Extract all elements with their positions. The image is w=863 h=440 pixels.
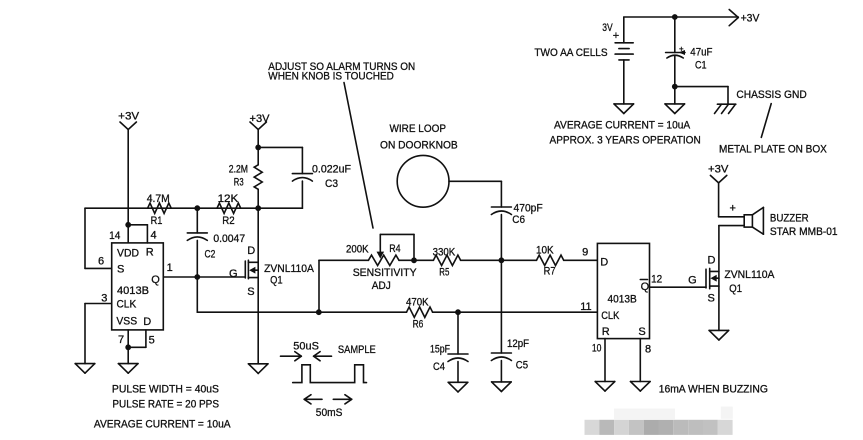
svg-text:200K: 200K bbox=[346, 244, 369, 256]
svg-text:AVERAGE CURRENT = 10uA: AVERAGE CURRENT = 10uA bbox=[554, 120, 691, 132]
wire U2 pin 10 R to ground bbox=[604, 339, 606, 382]
ground below Q2 source bbox=[709, 330, 729, 340]
annotation sample waveform 50uS bbox=[281, 340, 376, 360]
svg-text:WIRE LOOP: WIRE LOOP bbox=[390, 123, 447, 135]
annotation buzzing current text bbox=[659, 383, 768, 395]
wire sense line y=260 (pot to U2 pin 9) bbox=[319, 259, 597, 261]
wire battery top bus to +3V arrow bbox=[624, 16, 739, 18]
annotation battery current text bbox=[550, 120, 701, 147]
power +3V buzzer supply arrow bbox=[708, 164, 729, 183]
pin 12 label bbox=[651, 274, 662, 286]
node C2 bottom on gate wire dot bbox=[195, 275, 199, 279]
svg-text:7: 7 bbox=[118, 334, 124, 346]
svg-text:D: D bbox=[600, 257, 608, 269]
pin 8 label bbox=[645, 344, 651, 356]
svg-text:SAMPLE: SAMPLE bbox=[338, 344, 376, 356]
wire bus left end down to U1 pin 6 S bbox=[85, 208, 112, 268]
resistor R7 10K bbox=[536, 244, 564, 277]
pin 3 label bbox=[101, 293, 107, 305]
svg-text:AVERAGE CURRENT = 10uA: AVERAGE CURRENT = 10uA bbox=[94, 419, 231, 431]
node bus/R3/Q1-drain junction dot bbox=[256, 206, 260, 210]
svg-text:G: G bbox=[688, 275, 697, 287]
svg-text:ZVNL110A: ZVNL110A bbox=[724, 269, 775, 281]
svg-text:APPROX. 3 YEARS OPERATION: APPROX. 3 YEARS OPERATION bbox=[550, 135, 701, 147]
svg-text:4: 4 bbox=[151, 230, 157, 242]
svg-text:S: S bbox=[117, 264, 124, 276]
node battery bus / C1 dot bbox=[673, 15, 677, 19]
capacitor C3 0.022uF bbox=[258, 147, 351, 208]
svg-text:STAR MMB-01: STAR MMB-01 bbox=[770, 226, 838, 238]
svg-text:Q1: Q1 bbox=[729, 283, 742, 295]
svg-text:R6: R6 bbox=[413, 318, 424, 330]
wire R6/CLK line y=312 bbox=[197, 311, 597, 313]
resistor R5 330K bbox=[433, 246, 461, 278]
svg-text:R: R bbox=[602, 326, 610, 338]
svg-text:R2: R2 bbox=[222, 215, 234, 227]
wire U2 pin 12 Qbar to Q2 gate bbox=[650, 286, 707, 288]
svg-text:Q: Q bbox=[151, 274, 160, 286]
svg-text:4013B: 4013B bbox=[117, 285, 149, 297]
power +3V left supply arrow bbox=[118, 111, 140, 130]
wire C1 bottom to chassis ground bbox=[675, 87, 728, 105]
capacitor C2 0.0047 bbox=[187, 208, 245, 277]
IC U2 4013B body bbox=[597, 243, 649, 338]
svg-text:C6: C6 bbox=[512, 214, 525, 226]
resistor R1 4.7M bbox=[147, 193, 172, 227]
svg-text:PULSE RATE = 20 PPS: PULSE RATE = 20 PPS bbox=[112, 398, 219, 410]
svg-text:D: D bbox=[247, 245, 255, 257]
power +3V second supply arrow (R3 top) bbox=[250, 113, 271, 130]
ground below CLK bbox=[75, 364, 95, 374]
pointer line chassis gnd to metal plate text bbox=[761, 104, 771, 138]
ground below C5 bbox=[492, 382, 512, 392]
wire Q2 drain vertical from buzzer to ground bbox=[718, 226, 720, 331]
wire pin14/pin4 bracket bbox=[128, 225, 147, 243]
capacitor C4 15pF bbox=[430, 312, 468, 382]
svg-text:ADJ: ADJ bbox=[372, 280, 391, 292]
ground below pin 8 bbox=[631, 382, 651, 392]
svg-text:16mA WHEN BUZZING: 16mA WHEN BUZZING bbox=[659, 383, 768, 395]
wire C6 bottom down to C5 bbox=[500, 215, 502, 354]
annotation pulse stats text bbox=[94, 383, 231, 430]
wire +3V left stem down to U1 VDD pin 14 bbox=[127, 130, 129, 243]
ground below C1 bbox=[665, 104, 685, 114]
wire Q1 drain-source vertical to ground bbox=[257, 208, 259, 364]
svg-text:VDD: VDD bbox=[117, 248, 139, 260]
svg-text:R3: R3 bbox=[234, 177, 244, 189]
svg-text:6: 6 bbox=[98, 256, 104, 268]
svg-text:D: D bbox=[143, 316, 151, 328]
power +3V right arrow (battery output) bbox=[729, 10, 760, 26]
resistor R6 470K bbox=[406, 296, 433, 330]
svg-text:Q1: Q1 bbox=[270, 275, 283, 287]
svg-text:PULSE WIDTH = 40uS: PULSE WIDTH = 40uS bbox=[112, 383, 219, 395]
node pot wiper leg on sense line dot bbox=[412, 258, 416, 262]
svg-text:15pF: 15pF bbox=[430, 344, 450, 356]
svg-text:ZVNL110A: ZVNL110A bbox=[264, 263, 314, 275]
svg-text:S: S bbox=[247, 286, 254, 298]
svg-text:50uS: 50uS bbox=[293, 340, 319, 352]
svg-text:C1: C1 bbox=[695, 60, 707, 72]
svg-text:0.0047: 0.0047 bbox=[213, 233, 245, 245]
svg-text:BUZZER: BUZZER bbox=[770, 213, 809, 225]
wire top bus y=208 from S-pin corner to C3 bottom bbox=[85, 207, 302, 209]
resistor R3 2.2M bbox=[229, 147, 262, 208]
svg-text:C2: C2 bbox=[205, 249, 216, 261]
chassis ground symbol bbox=[715, 89, 807, 114]
svg-text:+: + bbox=[679, 45, 684, 54]
wire U2 pin 8 S to ground bbox=[639, 339, 641, 382]
pointer line from adjust text to pot bbox=[344, 83, 373, 229]
svg-text:12pF: 12pF bbox=[507, 338, 529, 350]
annotation adjust-so-alarm text bbox=[268, 61, 415, 83]
svg-text:VSS: VSS bbox=[116, 315, 137, 327]
wire +3V to R3 top node bbox=[257, 130, 259, 148]
svg-text:ON DOORKNOB: ON DOORKNOB bbox=[380, 139, 458, 151]
node R3 top / C3 junction dot bbox=[256, 145, 260, 149]
potentiometer R4 200K sensitivity adj bbox=[346, 234, 417, 292]
svg-text:+3V: +3V bbox=[250, 113, 271, 125]
svg-text:3V: 3V bbox=[602, 22, 613, 34]
svg-text:METAL PLATE ON BOX: METAL PLATE ON BOX bbox=[719, 144, 827, 156]
pin 9 label bbox=[582, 247, 588, 259]
node pin14 branch dot bbox=[126, 223, 130, 227]
wire pot left elbow down to R6 line bbox=[318, 260, 320, 312]
svg-text:+: + bbox=[730, 203, 736, 215]
ground below Q1 source bbox=[248, 364, 268, 374]
pin 4 label bbox=[151, 230, 157, 242]
svg-text:1: 1 bbox=[167, 262, 173, 274]
svg-text:C3: C3 bbox=[325, 178, 338, 190]
svg-text:Q: Q bbox=[641, 281, 650, 293]
svg-text:14: 14 bbox=[109, 230, 120, 242]
svg-text:G: G bbox=[229, 268, 238, 280]
svg-text:11: 11 bbox=[580, 301, 591, 313]
svg-text:TWO AA CELLS: TWO AA CELLS bbox=[534, 47, 607, 59]
svg-text:C5: C5 bbox=[516, 360, 528, 372]
pin 14 label bbox=[109, 230, 120, 242]
node pot left leg on R6 line dot bbox=[317, 310, 321, 314]
svg-text:9: 9 bbox=[582, 247, 588, 259]
watermark pixelated block bbox=[585, 407, 733, 435]
ground below battery bbox=[614, 104, 634, 114]
annotation metal plate text bbox=[719, 144, 827, 156]
capacitor C5 12pF bbox=[491, 338, 529, 382]
svg-text:47uF: 47uF bbox=[690, 47, 712, 59]
node R1/R2/C2 junction dot bbox=[195, 206, 199, 210]
IC U1 4013B body bbox=[112, 243, 164, 330]
svg-text:2.2M: 2.2M bbox=[229, 163, 248, 175]
transistor Q1 ZVNL110A (left MOSFET) bbox=[229, 245, 315, 298]
svg-text:D: D bbox=[708, 255, 716, 267]
node C1 bottom / chassis branch dot bbox=[673, 85, 677, 89]
pin 5 label bbox=[149, 335, 155, 347]
pin 1 label bbox=[167, 262, 173, 274]
svg-text:0.022uF: 0.022uF bbox=[312, 164, 351, 176]
svg-text:8: 8 bbox=[645, 344, 651, 356]
svg-text:+3V: +3V bbox=[118, 111, 140, 123]
svg-text:S: S bbox=[708, 293, 715, 305]
svg-text:R4: R4 bbox=[389, 243, 400, 255]
wire U1 pins 7 and 5 joined to ground bbox=[128, 330, 146, 364]
ground below pin 10 bbox=[595, 382, 615, 392]
svg-text:S: S bbox=[638, 326, 645, 338]
wire loop to C6 bbox=[449, 181, 501, 207]
transistor Q2 ZVNL110A (buzzer driver) bbox=[688, 255, 775, 305]
wire gate node down to R6 line bbox=[196, 277, 198, 312]
svg-text:+3V: +3V bbox=[708, 164, 729, 176]
svg-text:5: 5 bbox=[149, 335, 155, 347]
pin 6 label bbox=[98, 256, 104, 268]
svg-text:CLK: CLK bbox=[601, 310, 620, 322]
svg-text:WHEN KNOB IS TOUCHED: WHEN KNOB IS TOUCHED bbox=[268, 71, 394, 83]
battery BT1 two AA cells bbox=[534, 17, 633, 104]
svg-text:470pF: 470pF bbox=[514, 203, 543, 215]
svg-text:CLK: CLK bbox=[117, 299, 137, 311]
svg-text:CHASSIS GND: CHASSIS GND bbox=[736, 89, 806, 101]
svg-text:R5: R5 bbox=[439, 266, 449, 278]
wire loop on doorknob (circle sensor) bbox=[380, 123, 458, 207]
ground below pins 7/5 bbox=[118, 364, 138, 374]
node C4 on R6 line dot bbox=[456, 310, 460, 314]
wire U1 pin 1 Q output to Q1 gate bbox=[163, 276, 245, 278]
capacitor C6 470pF bbox=[491, 203, 543, 226]
svg-text:R: R bbox=[146, 247, 154, 259]
wire buzzer minus terminal to Q2 drain bbox=[719, 225, 744, 227]
pin 7 label bbox=[118, 334, 124, 346]
svg-text:10: 10 bbox=[592, 343, 602, 355]
svg-text:SENSITIVITY: SENSITIVITY bbox=[353, 267, 418, 279]
annotation 50mS arrows bbox=[304, 395, 352, 419]
node C6/C5 line on sense line dot bbox=[499, 258, 503, 262]
resistor R2 12K bbox=[217, 193, 241, 227]
pin 10 label bbox=[592, 343, 602, 355]
capacitor C1 47uF bbox=[666, 17, 713, 104]
wire +3V to buzzer plus terminal bbox=[719, 183, 745, 217]
svg-text:+3V: +3V bbox=[741, 13, 760, 25]
wire U1 pin 3 CLK to ground bbox=[85, 304, 112, 364]
node pins 7/5 join dot bbox=[126, 345, 130, 349]
ground below C4 bbox=[448, 382, 468, 392]
svg-text:C4: C4 bbox=[433, 361, 445, 373]
svg-text:R1: R1 bbox=[151, 215, 163, 227]
svg-text:+: + bbox=[613, 30, 619, 42]
buzzer STAR MMB-01 speaker symbol bbox=[730, 203, 838, 238]
svg-text:4013B: 4013B bbox=[608, 294, 637, 306]
pin 11 label bbox=[580, 301, 591, 313]
svg-text:12: 12 bbox=[651, 274, 662, 286]
svg-text:R7: R7 bbox=[544, 266, 556, 278]
waveform pulse train bbox=[293, 365, 367, 383]
svg-text:50mS: 50mS bbox=[316, 407, 343, 419]
